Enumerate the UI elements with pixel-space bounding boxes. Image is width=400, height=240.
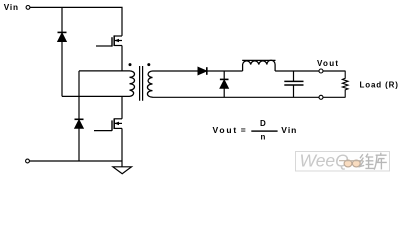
wire Q1 source to primary top [121,46,123,71]
capacitor C1 top lead [293,71,295,81]
wire Q2 drain from primary bottom node [121,96,123,118]
transistor Q2 channel bar [113,118,115,129]
transistor Q1 drain tap [114,35,122,37]
transistor Q1 body tap [114,40,122,42]
transformer T1 primary winding [130,71,135,97]
transistor Q1 body arrow [114,39,119,43]
node Vout return terminal [319,95,323,99]
transformer T1 phasing dot secondary [147,63,150,66]
diode D1 (clamp, cathode up) [58,31,67,33]
watermark 库 glyph [374,153,387,170]
svg-text:Vout: Vout [317,59,339,68]
diode D3 rectifier body [198,67,207,74]
ground stub [121,161,123,167]
svg-text:n: n [261,132,266,141]
diode D4 cathode bar [220,78,229,80]
node Vout terminal [319,69,323,73]
diode D2 body [75,120,84,128]
wire D3 to inductor [207,70,243,72]
watermark 维 glyph [360,154,374,169]
svg-text:Vin: Vin [281,125,297,135]
diode D4 body (freewheel, cathode up) [220,80,228,88]
transistor Q1 channel bar [113,35,115,46]
transistor Q1 gate lead [96,45,112,47]
transistor Q1 gate bar [111,37,113,46]
watermark WeeQoo text [300,150,363,170]
transistor Q2 gate lead [94,130,112,132]
resistor load R [342,71,348,97]
diode D2 cathode bar [75,118,84,120]
transistor Q2 drain tap [114,118,122,120]
wire secondary bottom rail [153,96,346,98]
transistor Q2 source tap [114,127,122,129]
wire D4 anode to bottom rail [223,88,225,97]
transistor Q2 body arrow [114,122,119,126]
inductor L1 top bar [242,59,275,61]
equation Vout = D/n Vin [213,119,298,141]
capacitor C1 bottom lead [293,85,295,97]
svg-text:=: = [241,125,246,135]
svg-text:D: D [260,119,266,128]
wire secondary top to rectifier [153,70,199,72]
capacitor C1 plates [284,81,303,85]
inductor L1 [243,60,276,71]
wire freewheel branch [223,71,225,79]
wire D2 anode to bottom rail [78,128,80,161]
ground symbol [113,167,132,174]
transistor Q1 source tap [114,45,122,47]
svg-text:Vout: Vout [213,125,238,135]
svg-text:Vin: Vin [4,3,19,12]
wire primary bottom rail [62,95,130,97]
wire D1 branch from top rail [61,7,63,32]
transformer T1 secondary winding [147,71,152,97]
transistor Q2 gate bar [111,120,113,130]
watermark box [296,152,390,172]
wire inductor to load [275,70,345,72]
wire primary top rail [79,70,130,72]
wire top rail Vin to Q1 drain [30,7,122,36]
node Vin terminal [26,6,30,10]
transformer T1 phasing dot primary [129,63,132,66]
wire Q2 source to ground rail [121,128,123,161]
diode D3 cathode bar [206,67,208,75]
svg-text:Load (R): Load (R) [360,81,399,90]
wire D1 anode down to primary-bottom node [61,42,63,97]
wire bottom-left rail [29,160,122,162]
transformer T1 core [140,66,143,101]
transistor Q2 body tap [114,122,122,124]
node Vin return terminal [26,159,30,163]
diode D2 branch (cathode up to primary top) [78,71,80,119]
